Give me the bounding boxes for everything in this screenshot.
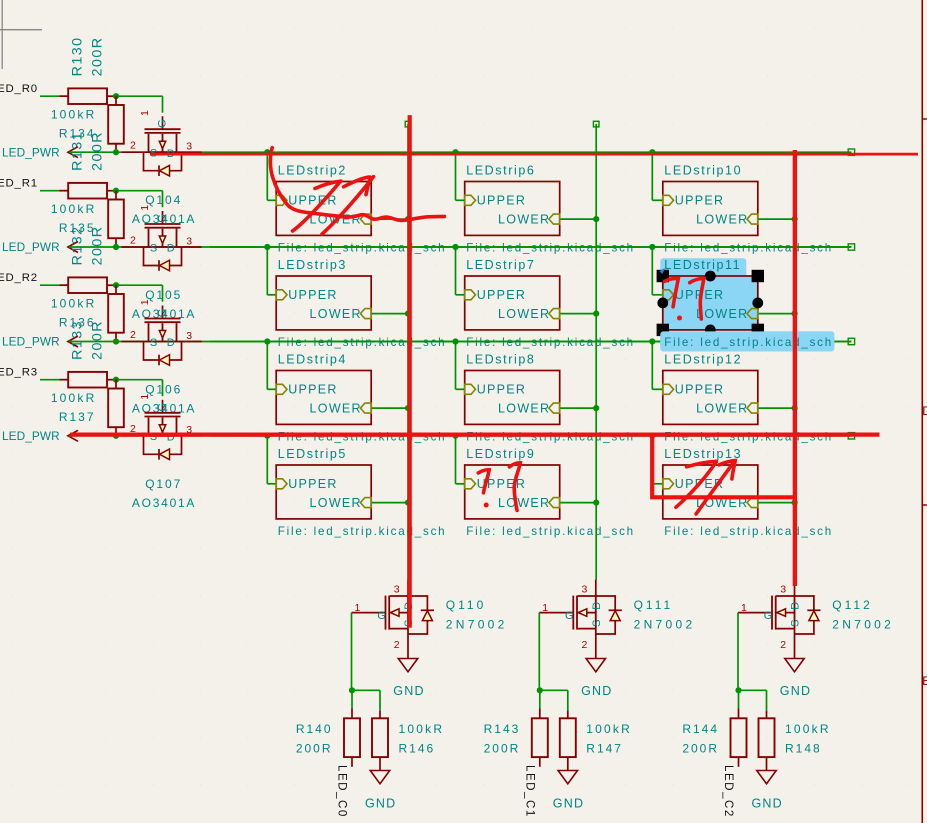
dangling wire end rail row 3 (848, 338, 854, 344)
resistor R131 200R (60, 131, 117, 199)
wire LEDstrip3 LOWER to column bus (371, 313, 408, 315)
hierarchical sheet LEDstrip11 (663, 258, 833, 349)
junction (113, 433, 119, 439)
wire to gate of Q104 (116, 96, 163, 113)
dangling wire end rail row 2 (848, 244, 854, 250)
wire LED_PWR rail row 3 (69, 341, 851, 343)
junction (264, 433, 270, 439)
wire LED_PWR rail row 2 (69, 246, 851, 248)
transistor Q110 2N7002 (352, 580, 435, 659)
red scribble seven 1 diagonal on LEDstrip13 (676, 461, 716, 507)
transistor Q104 AO3401A (122, 110, 202, 176)
svg-text:G: G (156, 214, 168, 223)
svg-text:100kR: 100kR (399, 722, 445, 736)
hierarchical sheet LEDstrip7 (465, 258, 635, 349)
hierarchical label LED_PWR row 2 (2, 240, 78, 254)
svg-text:100kR: 100kR (51, 202, 97, 216)
wire LED_PWR feed to LEDstrip5 UPPER (267, 436, 276, 484)
wire LED_PWR feed to LEDstrip6 UPPER (456, 152, 465, 200)
selection highlight file text LEDstrip11 (660, 331, 834, 351)
wire to gate of Q107 (116, 380, 163, 397)
junction (593, 311, 599, 317)
junction (649, 149, 655, 155)
net label LED_C1 (523, 765, 536, 818)
red scribble question mark 2 on LEDstrip11 (690, 278, 704, 319)
junction (792, 405, 798, 411)
svg-text:UPPER: UPPER (675, 383, 725, 397)
red scribble question mark 1 on LEDstrip11 (665, 278, 679, 306)
red scribble diagonal 1 on LEDstrip2 (293, 181, 341, 231)
svg-text:UPPER: UPPER (477, 194, 527, 208)
junction (113, 244, 119, 250)
svg-text:200R: 200R (484, 742, 521, 756)
svg-text:G: G (377, 610, 386, 622)
junction (649, 244, 655, 250)
red scribble diagonal 2 on LEDstrip2 (322, 177, 374, 234)
label Q111 2N7002 (634, 598, 696, 632)
red scribble question mark 2 on LEDstrip9 (509, 463, 520, 511)
label Q104 AO3401A (132, 193, 196, 226)
svg-text:LEDstrip7: LEDstrip7 (466, 258, 535, 272)
wire LED_R3 to R133 (40, 379, 68, 381)
wire column 1 LOWER bus (405, 121, 411, 580)
net label LED_C2 (722, 765, 735, 818)
wire column 3 LOWER bus (794, 219, 796, 580)
svg-text:D: D (790, 602, 802, 610)
net label LED_R2 (0, 272, 38, 284)
net label LED_R0 (0, 83, 38, 95)
svg-text:2: 2 (130, 140, 136, 152)
svg-text:G: G (156, 403, 168, 412)
junction (264, 338, 270, 344)
hierarchical sheet LEDstrip12 (663, 352, 833, 443)
wire LED_R1 to R131 (40, 190, 68, 192)
svg-text:G: G (156, 119, 168, 128)
svg-text:LEDstrip11: LEDstrip11 (664, 258, 741, 272)
junction (593, 216, 599, 222)
svg-text:LED_C2: LED_C2 (722, 765, 735, 818)
junction (593, 500, 599, 506)
junction (405, 500, 411, 506)
svg-text:E: E (922, 674, 927, 688)
hierarchical sheet LEDstrip2 (276, 163, 446, 254)
ground GND below R146 (365, 771, 396, 811)
red annotation vertical line column 3 (793, 150, 797, 586)
svg-text:200R: 200R (90, 320, 106, 360)
svg-text:LEDstrip2: LEDstrip2 (278, 163, 347, 177)
wire LED_R2 to R132 (40, 284, 68, 286)
svg-text:Q110: Q110 (446, 598, 486, 612)
svg-text:LEDstrip13: LEDstrip13 (664, 447, 742, 461)
svg-text:GND: GND (780, 684, 811, 698)
svg-text:LED_R2: LED_R2 (0, 272, 38, 284)
wire LED_PWR feed to LEDstrip13 UPPER (652, 436, 663, 484)
junction (113, 377, 119, 383)
resistor R148 100kR (759, 711, 831, 771)
red scribble seven 2 diagonal on LEDstrip13 (696, 463, 733, 514)
junction (349, 687, 355, 693)
junction (649, 338, 655, 344)
wire LED_PWR feed to LEDstrip3 UPPER (267, 247, 276, 295)
wire column 2 LOWER bus (593, 121, 599, 580)
red annotation vertical line column 1 (408, 115, 412, 628)
svg-text:1: 1 (355, 602, 361, 614)
transistor Q105 AO3401A (122, 205, 202, 271)
wire LEDstrip11 LOWER to column bus (758, 313, 795, 315)
hierarchical sheet LEDstrip9 (465, 447, 635, 538)
wire LEDstrip9 LOWER to column bus (560, 502, 597, 504)
wire LEDstrip10 LOWER to column bus (758, 218, 795, 220)
svg-text:2N7002: 2N7002 (446, 618, 508, 632)
wire to gate of Q105 (116, 191, 163, 208)
transistor Q107 AO3401A (122, 394, 202, 460)
svg-text:200R: 200R (296, 742, 333, 756)
svg-text:LED_PWR: LED_PWR (2, 145, 60, 159)
svg-text:LOWER: LOWER (310, 307, 362, 321)
svg-text:1: 1 (139, 110, 151, 116)
svg-text:LED_R3: LED_R3 (0, 367, 38, 379)
wire to gate of Q106 (116, 285, 163, 302)
red scribble swoosh on LEDstrip2 (270, 148, 444, 221)
svg-text:3: 3 (582, 584, 588, 596)
wire LED_PWR feed to LEDstrip4 UPPER (267, 342, 276, 390)
svg-text:S: S (591, 620, 603, 627)
svg-text:100kR: 100kR (586, 722, 632, 736)
svg-text:G: G (764, 610, 773, 622)
junction (452, 338, 458, 344)
svg-text:2: 2 (394, 639, 400, 651)
hierarchical sheet LEDstrip13 (663, 447, 833, 538)
junction (452, 244, 458, 250)
ground GND at Q110 source (393, 659, 424, 698)
wire gate of Q111 to resistors (539, 613, 568, 711)
ground GND below R148 (752, 771, 783, 811)
red scribble seven 1 bar on LEDstrip13 (687, 461, 717, 466)
junction (537, 687, 543, 693)
red scribble seven 2 bar on LEDstrip13 (719, 461, 735, 479)
svg-text:LEDstrip8: LEDstrip8 (466, 352, 535, 366)
junction (452, 433, 458, 439)
resistor R132 200R (60, 225, 117, 293)
red scribble zigzag on LEDstrip2 (315, 177, 370, 195)
wire LEDstrip8 LOWER to column bus (560, 407, 597, 409)
junction (113, 338, 119, 344)
wire LED_R0 to R130 (40, 95, 68, 97)
resistor R130 200R (60, 36, 117, 104)
svg-text:GND: GND (553, 797, 584, 811)
svg-text:3: 3 (186, 141, 192, 153)
resistor R146 100kR (372, 711, 444, 771)
svg-text:R130: R130 (70, 36, 86, 76)
svg-text:100kR: 100kR (51, 297, 97, 311)
resistor R140 200R (296, 709, 360, 767)
svg-text:Q111: Q111 (634, 598, 674, 612)
red annotation horizontal line row 1 (150, 153, 918, 156)
wire LED_PWR feed to LEDstrip12 UPPER (652, 342, 663, 390)
svg-text:3: 3 (394, 584, 400, 596)
wire LEDstrip2 LOWER to column bus (371, 218, 408, 220)
svg-text:LOWER: LOWER (696, 213, 748, 227)
svg-text:200R: 200R (90, 131, 106, 171)
svg-text:LEDstrip10: LEDstrip10 (664, 163, 742, 177)
svg-text:R144: R144 (682, 722, 719, 736)
svg-text:LOWER: LOWER (498, 402, 550, 416)
svg-text:S: S (150, 242, 157, 254)
resistor R143 200R (484, 709, 548, 767)
svg-text:2: 2 (582, 639, 588, 651)
resistor R147 100kR (560, 711, 632, 771)
svg-text:LED_R0: LED_R0 (0, 83, 38, 95)
svg-text:R146: R146 (399, 742, 436, 756)
label Q107 AO3401A (132, 477, 196, 510)
wire LED_PWR feed to LEDstrip8 UPPER (456, 342, 465, 390)
hierarchical label LED_PWR row 4 (2, 429, 78, 443)
hierarchical sheet LEDstrip3 (276, 258, 446, 349)
svg-text:1: 1 (741, 602, 747, 614)
svg-text:File: led_strip.kicad_sch: File: led_strip.kicad_sch (466, 430, 635, 443)
net label LED_R3 (0, 367, 38, 379)
selection handles (657, 268, 764, 336)
svg-text:UPPER: UPPER (675, 194, 725, 208)
red scribble dot on LEDstrip9 (484, 503, 489, 508)
svg-text:100kR: 100kR (51, 108, 97, 122)
label Q105 AO3401A (132, 288, 196, 321)
wire LED_PWR rail row 4 (69, 435, 851, 437)
svg-text:LEDstrip3: LEDstrip3 (278, 258, 347, 272)
hierarchical label LED_PWR row 1 (2, 145, 78, 159)
junction (113, 188, 119, 194)
wire gate of Q110 to resistors (352, 613, 381, 711)
svg-text:3: 3 (780, 584, 786, 596)
red scribble question mark 1 on LEDstrip9 (478, 470, 489, 493)
resistor R135 100kR (51, 191, 124, 247)
svg-text:1: 1 (139, 299, 151, 305)
wire LED_PWR feed to LEDstrip9 UPPER (456, 436, 465, 484)
hierarchical sheet LEDstrip4 (276, 352, 446, 443)
svg-text:LEDstrip4: LEDstrip4 (278, 352, 347, 366)
svg-text:LOWER: LOWER (498, 213, 550, 227)
svg-text:File: led_strip.kicad_sch: File: led_strip.kicad_sch (664, 336, 833, 349)
hierarchical sheet LEDstrip8 (465, 352, 635, 443)
svg-text:File: led_strip.kicad_sch: File: led_strip.kicad_sch (466, 525, 635, 538)
wire LEDstrip6 LOWER to column bus (560, 218, 597, 220)
wire LED_PWR feed to LEDstrip7 UPPER (456, 247, 465, 295)
svg-text:1: 1 (139, 205, 151, 211)
svg-text:UPPER: UPPER (477, 288, 527, 302)
hierarchical sheet LEDstrip6 (465, 163, 635, 254)
sheet origin crosshair top-left (0, 0, 42, 69)
svg-text:2N7002: 2N7002 (634, 618, 696, 632)
svg-text:R148: R148 (785, 742, 822, 756)
ground GND below R147 (553, 771, 584, 811)
svg-text:100kR: 100kR (785, 722, 831, 736)
wire LED_PWR rail row 3 overlay (210, 341, 851, 343)
selection highlight LEDstrip11 (660, 258, 834, 351)
svg-text:UPPER: UPPER (288, 288, 338, 302)
svg-text:2: 2 (130, 329, 136, 341)
resistor R144 200R (682, 709, 746, 767)
junction (405, 405, 411, 411)
junction (113, 93, 119, 99)
svg-text:G: G (156, 309, 168, 318)
svg-text:LED_PWR: LED_PWR (2, 335, 60, 349)
wire LED_PWR feed to LEDstrip11 UPPER (652, 247, 663, 295)
resistor R137 100kR (51, 380, 124, 436)
svg-text:LEDstrip6: LEDstrip6 (466, 163, 535, 177)
svg-text:LED_R1: LED_R1 (0, 178, 38, 190)
svg-text:200R: 200R (90, 36, 106, 76)
hierarchical sheet LEDstrip10 (663, 163, 833, 254)
junction (792, 500, 798, 506)
wire LED_PWR feed to LEDstrip10 UPPER (652, 152, 663, 200)
transistor Q106 AO3401A (122, 299, 202, 365)
ground GND at Q112 source (780, 659, 811, 698)
junction (264, 149, 270, 155)
svg-text:S: S (150, 337, 157, 349)
svg-text:R131: R131 (70, 131, 86, 171)
svg-text:200R: 200R (682, 742, 719, 756)
red scribble dot on LEDstrip11 (677, 316, 682, 321)
svg-text:LOWER: LOWER (696, 307, 748, 321)
svg-text:3: 3 (186, 330, 192, 342)
svg-text:LED_C0: LED_C0 (336, 765, 349, 818)
svg-text:File: led_strip.kicad_sch: File: led_strip.kicad_sch (664, 525, 833, 538)
ground GND at Q111 source (581, 659, 612, 698)
svg-text:1: 1 (139, 394, 151, 400)
svg-text:LOWER: LOWER (310, 496, 362, 510)
svg-text:LEDstrip12: LEDstrip12 (664, 352, 742, 366)
svg-text:LEDstrip5: LEDstrip5 (278, 447, 347, 461)
svg-text:100kR: 100kR (51, 391, 97, 405)
red annotation L shape near LEDstrip13 (652, 436, 795, 497)
junction (593, 405, 599, 411)
svg-text:D: D (591, 602, 603, 610)
net label LED_C0 (336, 765, 349, 818)
svg-text:Q107: Q107 (145, 477, 182, 491)
svg-text:D: D (167, 337, 175, 349)
junction (452, 149, 458, 155)
junction (113, 149, 119, 155)
svg-text:R133: R133 (70, 320, 86, 360)
wire LEDstrip12 LOWER to column bus (758, 407, 795, 409)
svg-text:R140: R140 (296, 722, 333, 736)
svg-text:UPPER: UPPER (288, 477, 338, 491)
resistor R133 200R (60, 320, 117, 388)
svg-text:D: D (167, 243, 175, 255)
svg-text:File: led_strip.kicad_sch: File: led_strip.kicad_sch (278, 430, 447, 443)
svg-text:R132: R132 (70, 225, 86, 265)
label Q106 AO3401A (132, 383, 196, 416)
svg-text:LEDstrip9: LEDstrip9 (466, 447, 535, 461)
svg-text:LED_PWR: LED_PWR (2, 240, 60, 254)
svg-text:GND: GND (752, 797, 783, 811)
junction (113, 282, 119, 288)
svg-text:G: G (565, 610, 574, 622)
junction (792, 216, 798, 222)
resistor R136 100kR (51, 285, 124, 341)
wire LEDstrip5 LOWER to column bus (371, 502, 408, 504)
wire LED_PWR rail row 4 overlay (210, 435, 851, 437)
svg-text:R143: R143 (484, 722, 521, 736)
svg-text:2: 2 (130, 234, 136, 246)
wire LEDstrip13 LOWER to column bus (758, 502, 795, 504)
svg-text:LOWER: LOWER (498, 307, 550, 321)
red annotation horizontal line row 4 (70, 433, 880, 437)
svg-text:UPPER: UPPER (477, 383, 527, 397)
dangling wire end rail row 1 (848, 149, 854, 155)
wire LED_PWR rail row 2 overlay (210, 246, 851, 248)
junction (405, 216, 411, 222)
junction (264, 244, 270, 250)
junction (405, 311, 411, 317)
svg-text:LED_C1: LED_C1 (523, 765, 536, 818)
wire LED_PWR rail row 1 (69, 151, 851, 153)
label Q110 2N7002 (446, 598, 508, 632)
svg-text:D: D (922, 404, 927, 418)
svg-text:200R: 200R (90, 225, 106, 265)
sheet border frame right edge (922, 0, 927, 823)
svg-text:Q112: Q112 (832, 598, 872, 612)
resistor R134 100kR (51, 96, 124, 152)
svg-text:GND: GND (365, 797, 396, 811)
label Q112 2N7002 (832, 598, 894, 632)
net label LED_R1 (0, 178, 38, 190)
transistor Q111 2N7002 (539, 580, 622, 659)
junction (735, 687, 741, 693)
wire LED_PWR feed to LEDstrip2 UPPER (267, 152, 276, 200)
hierarchical label LED_PWR row 3 (2, 335, 78, 349)
wire LEDstrip4 LOWER to column bus (371, 407, 408, 409)
dangling wire end rail row 4 (848, 433, 854, 439)
svg-text:GND: GND (393, 684, 424, 698)
svg-text:S: S (790, 620, 802, 627)
wire gate of Q112 to resistors (738, 613, 767, 711)
svg-text:2: 2 (780, 639, 786, 651)
svg-text:UPPER: UPPER (288, 383, 338, 397)
svg-text:LOWER: LOWER (696, 402, 748, 416)
junction (649, 433, 655, 439)
svg-text:1: 1 (542, 602, 548, 614)
hierarchical sheet LEDstrip5 (276, 447, 446, 538)
svg-text:2N7002: 2N7002 (832, 618, 894, 632)
svg-text:LOWER: LOWER (310, 402, 362, 416)
svg-text:3: 3 (186, 235, 192, 247)
svg-text:File: led_strip.kicad_sch: File: led_strip.kicad_sch (278, 525, 447, 538)
svg-text:GND: GND (581, 684, 612, 698)
svg-text:R137: R137 (59, 410, 96, 424)
transistor Q112 2N7002 (738, 580, 821, 659)
svg-text:File: led_strip.kicad_sch: File: led_strip.kicad_sch (664, 430, 833, 443)
wire LEDstrip7 LOWER to column bus (560, 313, 597, 315)
svg-text:AO3401A: AO3401A (132, 496, 196, 510)
junction (792, 311, 798, 317)
svg-text:R147: R147 (586, 742, 623, 756)
svg-text:LED_PWR: LED_PWR (2, 429, 60, 443)
svg-text:LOWER: LOWER (498, 496, 550, 510)
